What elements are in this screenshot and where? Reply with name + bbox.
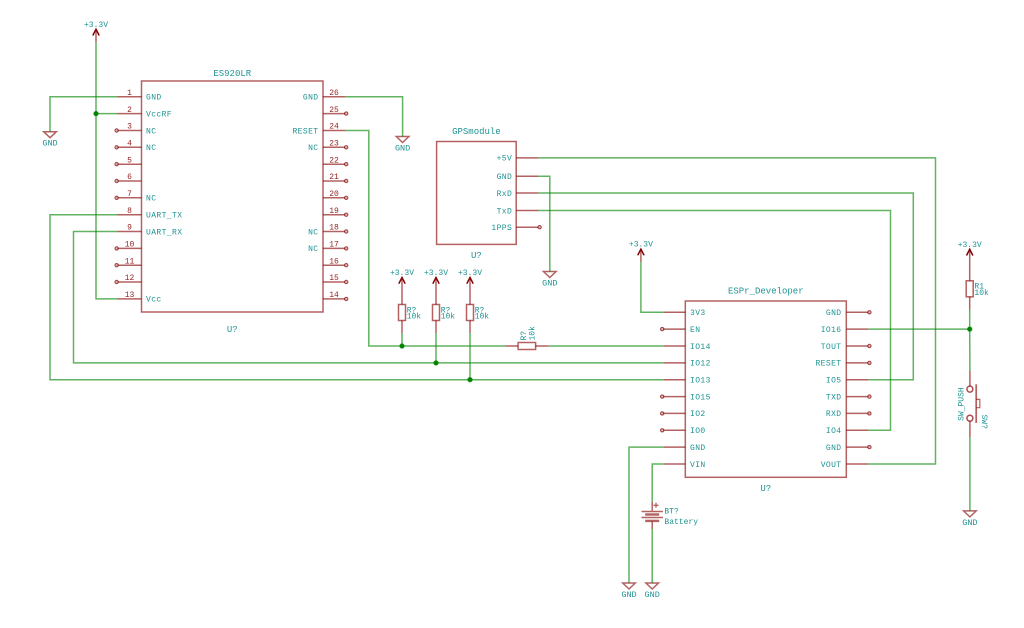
wire switch to ground G6 — [969, 437, 971, 511]
svg-text:BT?: BT? — [664, 508, 679, 517]
svg-text:Battery: Battery — [664, 518, 698, 527]
pin 4 NC ES920LR — [115, 140, 157, 154]
pin VIN ESPr left — [663, 461, 705, 470]
svg-text:9: 9 — [127, 224, 132, 233]
svg-text:NC: NC — [308, 245, 318, 254]
svg-text:U?: U? — [760, 484, 771, 494]
pin 14 (nc) ES920LR — [323, 291, 348, 300]
svg-text:10k: 10k — [407, 313, 422, 322]
svg-text:1PPS: 1PPS — [491, 224, 512, 233]
pin 5 (nc) ES920LR — [115, 156, 142, 166]
svg-text:10k: 10k — [529, 326, 538, 341]
wire battery to ground G5 — [651, 529, 653, 583]
power +3.3V P6 R1 pullup — [958, 241, 982, 262]
svg-text:3V3: 3V3 — [690, 309, 706, 318]
pin 19 (nc) ES920LR — [323, 207, 348, 217]
svg-text:GND: GND — [826, 309, 842, 318]
pin 12 (nc) ES920LR — [115, 274, 142, 283]
wire GPS RxD to IO5 — [538, 193, 913, 380]
label U? reference ESPr_Developer — [760, 484, 771, 494]
svg-text:20: 20 — [329, 190, 339, 199]
wire UART_TX to IO13 — [50, 215, 663, 380]
pin RESET ESPr right — [815, 360, 871, 369]
svg-text:IO14: IO14 — [690, 343, 711, 352]
pin IO15 ESPr left — [661, 393, 711, 402]
ground G6 switch — [962, 511, 977, 528]
wire node to switch — [969, 329, 971, 371]
svg-text:23: 23 — [329, 140, 339, 149]
svg-text:RxD: RxD — [497, 190, 513, 199]
pin 18 NC ES920LR — [308, 224, 348, 238]
svg-text:RESET: RESET — [292, 127, 318, 136]
label GPSmodule value — [452, 127, 501, 137]
svg-text:GND: GND — [542, 279, 557, 289]
svg-text:26: 26 — [329, 89, 339, 98]
ground G5 battery — [645, 583, 660, 600]
svg-text:14: 14 — [329, 291, 339, 300]
svg-text:GND: GND — [826, 444, 842, 453]
svg-text:GND: GND — [303, 94, 319, 103]
wire +3.3V rail to VccRF and Vcc — [96, 42, 118, 299]
pin GND ESPr left — [663, 444, 705, 453]
pin IO13 ESPr left — [663, 377, 711, 386]
power +3.3V P5 ESPr 3V3 — [629, 241, 653, 263]
battery BT? — [642, 502, 699, 529]
svg-text:U?: U? — [471, 251, 482, 261]
pin TOUT ESPr right — [821, 343, 871, 352]
IC U? ESPr_Developer body — [685, 301, 846, 477]
svg-text:VIN: VIN — [690, 461, 706, 470]
pin 1PPS GPSmodule — [491, 224, 541, 233]
pin 2 VccRF ES920LR — [118, 106, 173, 120]
svg-text:GND: GND — [146, 94, 162, 103]
svg-text:IO2: IO2 — [690, 410, 706, 419]
power +3.3V P1 top-left — [84, 21, 108, 43]
pin 26 GND ES920LR — [303, 89, 345, 103]
pin 20 (nc) ES920LR — [323, 190, 348, 200]
svg-text:6: 6 — [127, 173, 132, 182]
power +3.3V P2 pullup1 — [390, 269, 414, 291]
ground G1 left — [42, 132, 57, 149]
pin TXD ESPr right — [826, 393, 871, 402]
pin 23 NC ES920LR — [308, 140, 348, 154]
svg-text:10k: 10k — [974, 289, 989, 298]
resistor R? 10k series — [505, 326, 548, 350]
pin EN ESPr left — [661, 326, 701, 335]
IC U? ES920LR body — [142, 81, 324, 312]
junction IO16 node — [968, 327, 972, 331]
wire pin2 VccRF to rail — [96, 113, 118, 115]
svg-text:10k: 10k — [475, 313, 490, 322]
svg-text:UART_RX: UART_RX — [146, 228, 182, 237]
pin 11 (nc) ES920LR — [115, 257, 142, 267]
svg-text:5: 5 — [127, 156, 132, 165]
pin 24 RESET ES920LR — [292, 123, 345, 137]
pin IO2 ESPr left — [661, 410, 706, 419]
wire GPS +5V to VOUT — [538, 158, 935, 464]
svg-text:22: 22 — [329, 156, 339, 165]
svg-text:IO0: IO0 — [690, 427, 706, 436]
pin 25 (nc) ES920LR — [323, 106, 348, 116]
wire +3.3V to ESPr 3V3 — [641, 262, 663, 312]
svg-text:RXD: RXD — [826, 410, 842, 419]
svg-text:2: 2 — [127, 106, 132, 115]
wire UART_RX to IO12 — [74, 232, 664, 363]
label U? reference GPSmodule — [471, 251, 482, 261]
svg-text:IO5: IO5 — [826, 377, 842, 386]
IC U? GPSmodule body — [437, 142, 517, 245]
wire pin26 GND to ground G2 — [345, 97, 403, 137]
svg-text:+5V: +5V — [497, 155, 513, 164]
ground G4 ESPr GND — [621, 583, 636, 600]
junction pullup1 on RESET net — [400, 344, 404, 348]
pin IO14 ESPr left — [663, 343, 711, 352]
pin GND ESPr right — [826, 309, 871, 318]
svg-text:NC: NC — [308, 228, 318, 237]
junction pullup3 on IO13 net — [468, 378, 472, 382]
svg-text:10k: 10k — [441, 313, 456, 322]
svg-text:IO15: IO15 — [690, 393, 711, 402]
svg-text:1: 1 — [127, 89, 132, 98]
svg-text:NC: NC — [146, 195, 156, 204]
label ESPr_Developer value — [728, 287, 804, 297]
pin VOUT ESPr right — [821, 461, 869, 470]
pin RxD GPSmodule — [497, 190, 539, 199]
svg-text:Vcc: Vcc — [146, 296, 162, 305]
pin IO5 ESPr right — [826, 377, 868, 386]
svg-text:IO16: IO16 — [821, 326, 842, 335]
svg-text:25: 25 — [329, 106, 339, 115]
svg-text:NC: NC — [146, 144, 156, 153]
svg-text:10: 10 — [125, 241, 135, 250]
wire RESET to series resistor — [345, 131, 505, 347]
svg-text:GND: GND — [621, 590, 636, 600]
svg-text:RESET: RESET — [815, 360, 841, 369]
svg-text:TOUT: TOUT — [821, 343, 842, 352]
svg-text:19: 19 — [329, 207, 339, 216]
resistor R1 10k pullup IO16 — [966, 262, 989, 329]
wire GPS TxD to IO4 — [538, 211, 890, 431]
resistor R? 10k pullup1 — [399, 291, 422, 347]
pin IO12 ESPr left — [663, 360, 711, 369]
svg-text:ES920LR: ES920LR — [213, 69, 251, 79]
pin 8 UART_TX ES920LR — [118, 207, 183, 221]
pin 3V3 ESPr left — [663, 309, 705, 318]
svg-text:GND: GND — [962, 518, 977, 528]
pin 1 GND ES920LR — [118, 89, 162, 103]
pin 10 (nc) ES920LR — [115, 241, 142, 250]
junction pullup2 on IO12 net — [434, 361, 438, 365]
svg-text:U?: U? — [227, 325, 238, 335]
pin 7 NC ES920LR — [115, 190, 157, 204]
pin 15 (nc) ES920LR — [323, 274, 348, 283]
switch SW? SW_PUSH — [958, 371, 989, 437]
pin IO4 ESPr right — [826, 427, 868, 436]
wire pin1 GND to ground G1 — [50, 97, 118, 132]
svg-text:GND: GND — [395, 144, 410, 154]
svg-text:NC: NC — [146, 127, 156, 136]
wire ESPr GND to ground G4 — [629, 447, 663, 583]
pin 9 UART_RX ES920LR — [118, 224, 183, 238]
pin 21 (nc) ES920LR — [323, 173, 348, 183]
pin IO0 ESPr left — [661, 427, 706, 436]
pin 13 Vcc ES920LR — [118, 291, 162, 305]
resistor R? 10k pullup3 — [467, 291, 490, 380]
ground G3 GPS — [542, 272, 557, 289]
svg-text:15: 15 — [329, 274, 339, 283]
svg-text:ESPr_Developer: ESPr_Developer — [728, 287, 804, 297]
pin 16 (nc) ES920LR — [323, 257, 348, 267]
svg-text:SW?: SW? — [979, 415, 988, 430]
ground G2 ES920 pin26 — [395, 137, 410, 154]
svg-text:IO12: IO12 — [690, 360, 711, 369]
power +3.3V P4 pullup3 — [458, 269, 482, 291]
svg-text:24: 24 — [329, 123, 339, 132]
pin RXD ESPr right — [826, 410, 871, 419]
pin GND ESPr right — [826, 444, 871, 453]
svg-text:4: 4 — [127, 140, 132, 149]
svg-text:8: 8 — [127, 207, 132, 216]
svg-text:TxD: TxD — [497, 207, 513, 216]
wire IO16 to pullup/switch node — [868, 328, 969, 330]
pin IO16 ESPr right — [821, 326, 869, 335]
pin 6 (nc) ES920LR — [115, 173, 142, 183]
svg-text:UART_TX: UART_TX — [146, 212, 182, 221]
svg-text:GND: GND — [645, 590, 660, 600]
pin TxD GPSmodule — [497, 207, 539, 216]
svg-text:IO4: IO4 — [826, 427, 842, 436]
junction at VccRF rail — [94, 111, 98, 115]
svg-text:17: 17 — [329, 241, 339, 250]
pin 22 (nc) ES920LR — [323, 156, 348, 166]
svg-text:GND: GND — [42, 139, 57, 149]
pin GND GPSmodule — [497, 173, 539, 182]
pin 17 NC ES920LR — [308, 241, 348, 255]
svg-text:3: 3 — [127, 123, 132, 132]
svg-text:7: 7 — [127, 190, 132, 199]
svg-text:18: 18 — [329, 224, 339, 233]
label U? reference ES920LR — [227, 325, 238, 335]
pin +5V GPSmodule — [497, 155, 539, 164]
svg-text:TXD: TXD — [826, 393, 842, 402]
wire GPS GND to ground G3 — [538, 176, 549, 271]
svg-text:21: 21 — [329, 173, 339, 182]
svg-text:EN: EN — [690, 326, 700, 335]
svg-text:GPSmodule: GPSmodule — [452, 127, 501, 137]
svg-text:11: 11 — [125, 257, 135, 266]
svg-text:VOUT: VOUT — [821, 461, 842, 470]
pin 3 NC ES920LR — [115, 123, 157, 137]
svg-text:GND: GND — [690, 444, 706, 453]
label ES920LR value — [213, 69, 251, 79]
svg-text:GND: GND — [497, 173, 513, 182]
svg-text:NC: NC — [308, 144, 318, 153]
svg-text:13: 13 — [125, 291, 135, 300]
svg-text:VccRF: VccRF — [146, 110, 172, 119]
wire VIN to battery — [652, 464, 663, 502]
svg-text:12: 12 — [125, 274, 135, 283]
svg-text:IO13: IO13 — [690, 377, 711, 386]
wire series resistor to IO14 — [549, 345, 664, 347]
power +3.3V P3 pullup2 — [424, 269, 448, 291]
svg-text:SW_PUSH: SW_PUSH — [958, 387, 967, 421]
resistor R? 10k pullup2 — [433, 291, 456, 363]
svg-text:16: 16 — [329, 257, 339, 266]
